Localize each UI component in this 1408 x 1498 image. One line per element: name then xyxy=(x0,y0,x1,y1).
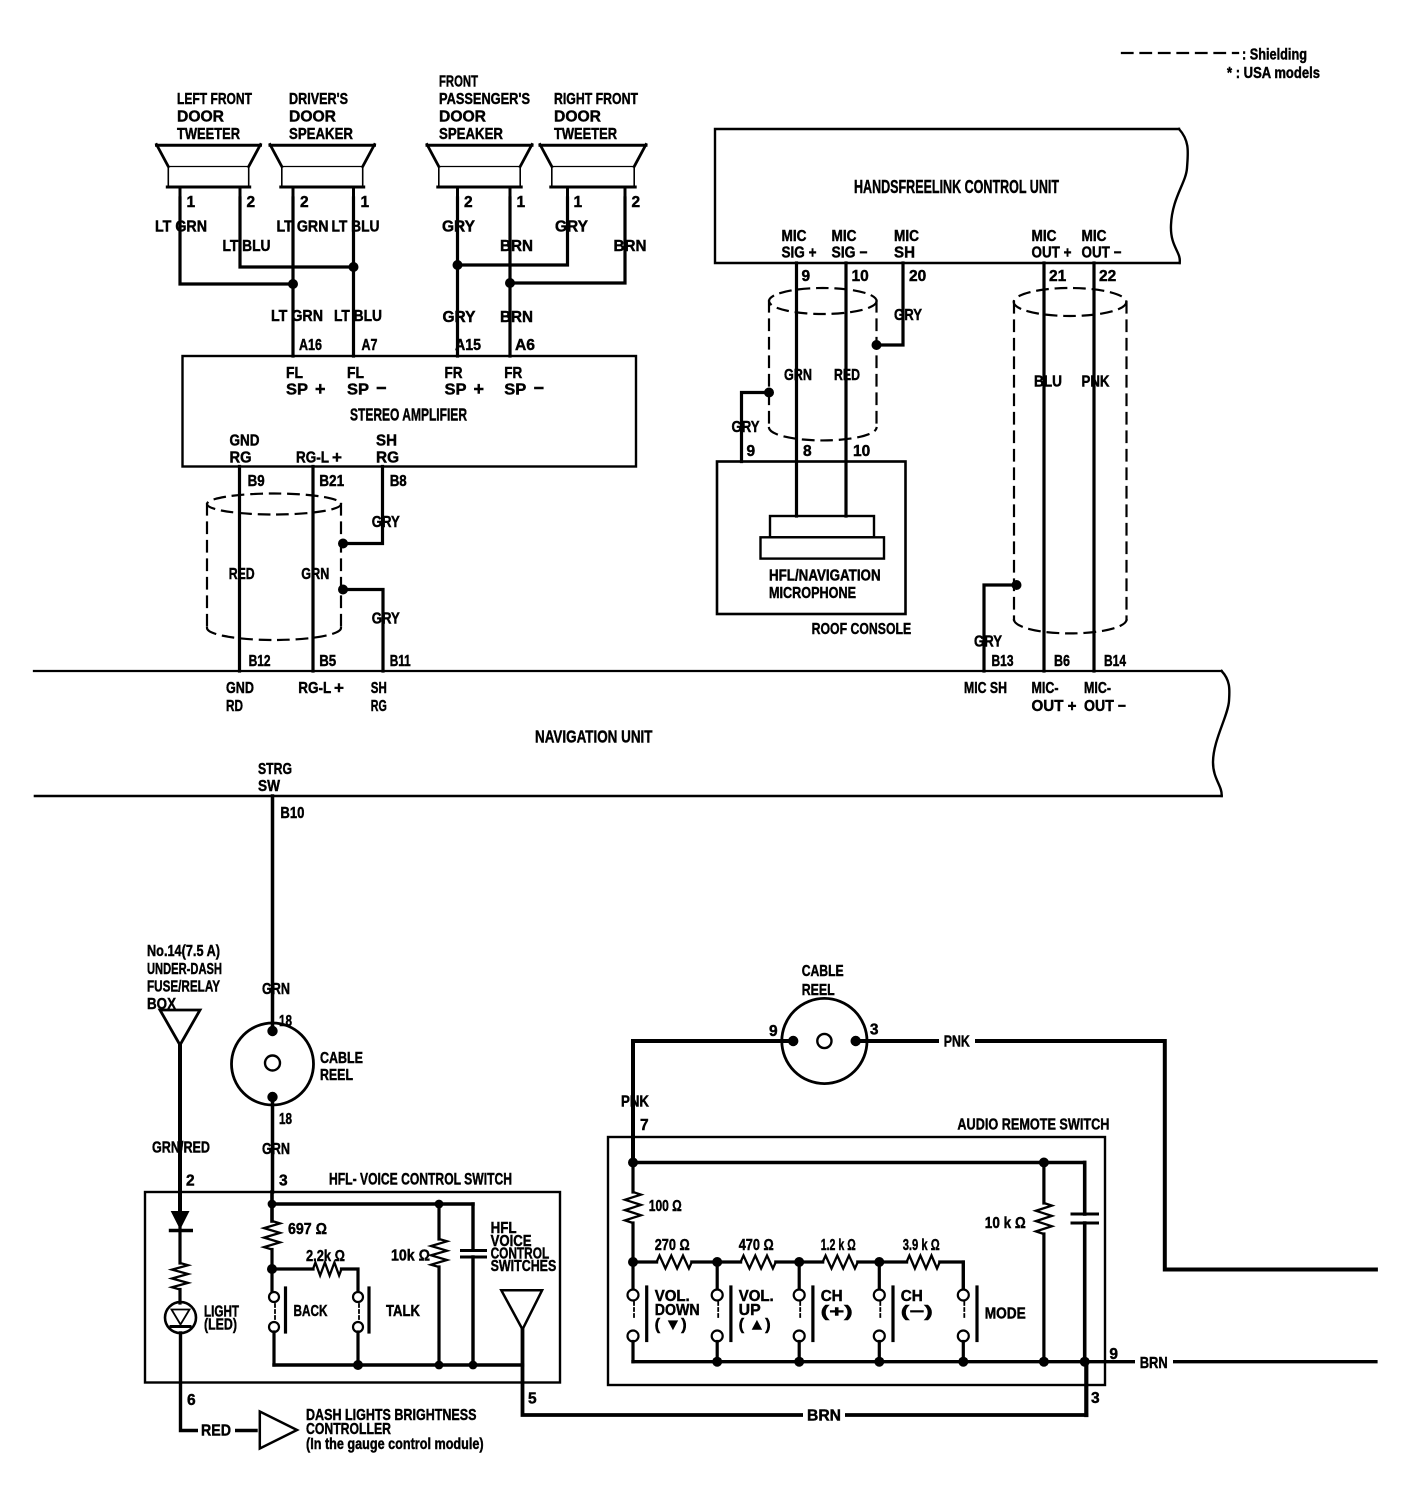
wire GRY shield to nav B13 xyxy=(984,585,1014,671)
svg-text:GRN: GRN xyxy=(262,1141,290,1158)
svg-text:3: 3 xyxy=(870,1022,879,1039)
svg-text:10: 10 xyxy=(852,268,869,285)
svg-text:SIG +: SIG + xyxy=(782,245,817,262)
hfl voice control switches symbol (triangle) xyxy=(501,1290,542,1329)
svg-text:9: 9 xyxy=(747,443,756,460)
amp pin names top xyxy=(286,365,544,399)
svg-text:GND: GND xyxy=(226,680,254,697)
junction dot GRY xyxy=(453,260,463,270)
svg-text:( ▲): ( ▲) xyxy=(739,1317,771,1334)
svg-text:MIC: MIC xyxy=(1032,228,1057,245)
svg-text:FR: FR xyxy=(504,365,522,382)
LED label xyxy=(204,1304,239,1334)
ch plus switch xyxy=(794,1262,813,1362)
svg-text:BRN: BRN xyxy=(500,238,533,255)
svg-text:8: 8 xyxy=(803,443,812,460)
svg-text:RED: RED xyxy=(201,1423,231,1440)
svg-text:GRN/RED: GRN/RED xyxy=(152,1140,210,1157)
svg-text:GRY: GRY xyxy=(372,611,401,628)
svg-text:10k Ω: 10k Ω xyxy=(391,1248,430,1265)
svg-text:2: 2 xyxy=(186,1173,195,1190)
junction dot gry shield xyxy=(872,340,882,350)
svg-text:CH: CH xyxy=(821,1288,843,1305)
svg-text:SP: SP xyxy=(347,382,369,399)
resistor 10k ohm vcs xyxy=(431,1204,447,1365)
junction dot LT GRN xyxy=(288,279,298,289)
svg-text:SP: SP xyxy=(286,382,308,399)
wire 2.2k to talk switch xyxy=(342,1269,359,1292)
svg-text:No.14(7.5 A): No.14(7.5 A) xyxy=(147,943,220,960)
wire LT GRN from tweeter-L pin1 to junction xyxy=(180,198,290,284)
svg-text:TWEETER: TWEETER xyxy=(554,126,617,143)
svg-text:18: 18 xyxy=(279,1111,292,1128)
svg-text:SPEAKER: SPEAKER xyxy=(439,126,503,143)
svg-text:MIC: MIC xyxy=(1082,228,1107,245)
svg-text:−: − xyxy=(376,378,387,398)
svg-text:RG: RG xyxy=(376,450,399,467)
svg-text:1: 1 xyxy=(361,194,370,211)
vol down switch label xyxy=(655,1288,700,1334)
cable reel 2 label xyxy=(802,963,844,999)
wire GRN B21 to B5 xyxy=(311,467,314,672)
wire pin3 audio remote switch xyxy=(1084,1362,1088,1415)
speaker symbol: front passenger's door speaker pin stubs xyxy=(458,187,511,200)
svg-text:2: 2 xyxy=(300,194,309,211)
svg-text:GRY: GRY xyxy=(894,307,923,324)
junction dot shield top xyxy=(338,539,348,549)
svg-text:B11: B11 xyxy=(390,653,411,670)
speaker symbol: driver's door speaker pin stubs xyxy=(293,187,354,200)
svg-text:5: 5 xyxy=(528,1391,537,1408)
resistor 100 ohm xyxy=(625,1163,641,1263)
svg-text:GRY: GRY xyxy=(443,309,477,326)
wire color labels lower xyxy=(271,308,533,326)
label RED xyxy=(198,1422,235,1438)
junction dot gry mic-out shield xyxy=(1012,580,1022,590)
legend: shielding dashed-line symbol xyxy=(1122,52,1238,54)
svg-text:22: 22 xyxy=(1099,268,1116,285)
mode switch label xyxy=(985,1306,1026,1323)
resistor 697 ohm xyxy=(264,1221,280,1269)
svg-text:( ▼): ( ▼) xyxy=(655,1317,687,1334)
wire BLU hfl pin21 to nav B6 xyxy=(1042,263,1045,671)
junction dot chain 2 xyxy=(794,1257,804,1267)
svg-text:GRY: GRY xyxy=(974,634,1003,651)
svg-text:HANDSFREELINK CONTROL UNIT: HANDSFREELINK CONTROL UNIT xyxy=(854,176,1059,197)
wire junction to back switch xyxy=(270,1269,273,1292)
junction dot shield bottom xyxy=(338,585,348,595)
svg-text:HFL/NAVIGATION: HFL/NAVIGATION xyxy=(769,568,881,585)
svg-text:GRY: GRY xyxy=(732,419,761,436)
svg-text:BLU: BLU xyxy=(1034,374,1062,391)
svg-text:1: 1 xyxy=(517,194,526,211)
svg-text:2: 2 xyxy=(464,194,473,211)
svg-text:MIC: MIC xyxy=(782,228,807,245)
svg-text:B9: B9 xyxy=(248,473,265,490)
wire GRN/RED fuse to hfl-vcs pin2 xyxy=(178,1045,182,1192)
resistor 3.9k ohm xyxy=(907,1256,940,1269)
svg-text:B8: B8 xyxy=(390,473,407,490)
back switch xyxy=(269,1288,286,1332)
label right front door tweeter xyxy=(554,91,638,143)
navigation unit bottom edge xyxy=(35,795,1222,798)
vol up switch xyxy=(712,1262,731,1362)
resistor 1.2k ohm xyxy=(823,1256,858,1269)
hfl pin names xyxy=(782,228,1122,262)
svg-text:LT BLU: LT BLU xyxy=(223,238,271,255)
shield cylinder amp-nav (dashed) xyxy=(207,494,341,640)
svg-text:2: 2 xyxy=(632,194,641,211)
nav pin names left xyxy=(226,679,387,716)
handsfreelink control unit box xyxy=(715,129,1188,263)
svg-text:* : USA models: * : USA models xyxy=(1227,65,1320,82)
svg-text:REEL: REEL xyxy=(320,1067,353,1084)
svg-text:(LED): (LED) xyxy=(204,1317,237,1334)
svg-text:GRY: GRY xyxy=(442,219,476,236)
svg-text:BRN: BRN xyxy=(614,238,647,255)
svg-text:B21: B21 xyxy=(319,473,344,490)
svg-text:1.2 k Ω: 1.2 k Ω xyxy=(821,1237,856,1254)
svg-text:A6: A6 xyxy=(515,337,535,354)
svg-text:LT BLU: LT BLU xyxy=(334,308,382,325)
svg-text:7: 7 xyxy=(640,1117,649,1134)
svg-text:REEL: REEL xyxy=(802,982,835,999)
svg-text:270 Ω: 270 Ω xyxy=(655,1237,690,1254)
wire GRY hfl pin20 to shield xyxy=(880,263,903,345)
svg-text:100 Ω: 100 Ω xyxy=(649,1198,682,1215)
talk switch xyxy=(353,1288,369,1332)
svg-text:OUT +: OUT + xyxy=(1032,245,1072,262)
svg-text:9: 9 xyxy=(769,1023,778,1040)
wire PNK reel2 right long run xyxy=(856,1041,1376,1270)
svg-text:RED: RED xyxy=(229,566,255,583)
nav pin name STRG SW xyxy=(258,761,292,795)
ch plus switch label xyxy=(821,1288,853,1321)
wire color labels upper xyxy=(155,219,647,256)
speaker symbol: right front door tweeter pin stubs xyxy=(568,187,626,200)
svg-text:RD: RD xyxy=(226,698,243,715)
svg-text:+: + xyxy=(315,379,326,399)
wire LT GRN driver pin2 to amp A16 xyxy=(291,198,294,356)
svg-text:BRN: BRN xyxy=(807,1408,841,1425)
svg-text:DOOR: DOOR xyxy=(289,109,336,126)
resistor 2.2k ohm xyxy=(313,1263,342,1276)
vol down switch xyxy=(628,1262,647,1362)
svg-text:SH: SH xyxy=(894,245,915,262)
svg-text:B12: B12 xyxy=(249,653,271,670)
hfl-vcs top rail xyxy=(268,1192,473,1221)
svg-text:(−): (−) xyxy=(901,1304,933,1321)
stereo amplifier box xyxy=(183,356,637,467)
resistor 470 ohm xyxy=(741,1256,776,1269)
cable reel 1 label xyxy=(320,1050,363,1084)
svg-text:MODE: MODE xyxy=(985,1306,1026,1323)
svg-text:MIC: MIC xyxy=(894,228,919,245)
wire GRY B8 to shield xyxy=(346,467,383,544)
cable reel 1 xyxy=(232,1023,314,1105)
svg-text:: Shielding: : Shielding xyxy=(1242,47,1307,64)
ch minus switch label xyxy=(901,1288,933,1321)
wire LED to pin6 and dash controller xyxy=(181,1333,257,1431)
label left front door tweeter xyxy=(177,91,252,143)
svg-text:B10: B10 xyxy=(280,805,304,822)
svg-text:3.9 k Ω: 3.9 k Ω xyxy=(903,1237,940,1254)
svg-text:OUT −: OUT − xyxy=(1082,245,1122,262)
wire GRN cable reel to hfl-vcs pin3 xyxy=(271,1097,275,1192)
svg-text:(+): (+) xyxy=(821,1304,853,1321)
svg-text:10: 10 xyxy=(853,443,870,460)
svg-text:RG: RG xyxy=(371,698,387,715)
svg-text:6: 6 xyxy=(187,1392,196,1409)
wire GRN hfl pin9 to mic pin8 xyxy=(795,263,798,516)
svg-text:GRY: GRY xyxy=(372,514,401,531)
nav pin names right xyxy=(964,680,1126,715)
svg-text:470 Ω: 470 Ω xyxy=(739,1237,774,1254)
hfl voice control switches label xyxy=(491,1220,557,1275)
capacitor vcs xyxy=(462,1204,486,1365)
svg-text:MIC-: MIC- xyxy=(1032,680,1059,697)
svg-text:FL: FL xyxy=(347,365,364,382)
svg-text:RG: RG xyxy=(230,450,252,467)
svg-text:GRN: GRN xyxy=(262,981,290,998)
svg-text:3: 3 xyxy=(1091,1390,1100,1407)
capacitor audio xyxy=(1072,1163,1098,1362)
junction dot BRN xyxy=(505,278,515,288)
wire RED hfl pin10 to mic pin10 xyxy=(844,263,847,516)
svg-text:UNDER-DASH: UNDER-DASH xyxy=(147,961,222,978)
svg-text:A15: A15 xyxy=(455,337,481,354)
resistor 10k ohm audio xyxy=(1036,1163,1052,1362)
dash lights brightness controller label xyxy=(306,1407,484,1453)
mode switch xyxy=(958,1262,977,1362)
svg-text:FL: FL xyxy=(286,365,303,382)
navigation unit top edge xyxy=(34,670,1222,672)
svg-text:CABLE: CABLE xyxy=(320,1050,363,1067)
svg-text:SP: SP xyxy=(445,382,467,399)
svg-text:GRN: GRN xyxy=(301,566,329,583)
svg-text:RG-L: RG-L xyxy=(298,680,331,697)
svg-text:SPEAKER: SPEAKER xyxy=(289,126,353,143)
resistor (led series) xyxy=(172,1263,188,1290)
svg-text:STEREO AMPLIFIER: STEREO AMPLIFIER xyxy=(350,405,467,425)
label PNK right xyxy=(939,1033,975,1049)
svg-text:+: + xyxy=(332,448,342,467)
wire LT BLU from tweeter-L pin2 to junction xyxy=(240,198,350,267)
hfl voice control switch box xyxy=(145,1192,560,1383)
svg-text:PASSENGER'S: PASSENGER'S xyxy=(439,91,530,108)
svg-text:A7: A7 xyxy=(362,337,378,354)
svg-text:FRONT: FRONT xyxy=(439,74,478,91)
svg-text:SH: SH xyxy=(376,433,397,450)
hfl-vcs bottom rail xyxy=(274,1363,523,1366)
vol up switch label xyxy=(739,1288,774,1334)
svg-text:SW: SW xyxy=(258,778,280,795)
microphone symbol xyxy=(761,516,885,559)
svg-text:SIG −: SIG − xyxy=(832,245,868,262)
svg-text:SP: SP xyxy=(504,382,526,399)
wire LT BLU driver pin1 to amp A7 xyxy=(352,198,355,356)
svg-text:GND: GND xyxy=(230,433,260,450)
resistor chain wire xyxy=(633,1262,963,1292)
audio bottom rail and BRN out xyxy=(633,1360,1376,1363)
audio top rail xyxy=(628,1158,1085,1168)
svg-text:9: 9 xyxy=(1109,1346,1118,1363)
svg-text:LT GRN: LT GRN xyxy=(271,308,323,325)
junction dot gry shield left xyxy=(764,388,774,398)
svg-text:HFL- VOICE CONTROL SWITCH: HFL- VOICE CONTROL SWITCH xyxy=(329,1171,512,1189)
svg-text:3: 3 xyxy=(279,1173,288,1190)
label driver's door speaker xyxy=(289,91,353,143)
svg-text:LEFT FRONT: LEFT FRONT xyxy=(177,91,252,108)
junction dots bottom rail xyxy=(712,1357,1089,1367)
svg-text:−: − xyxy=(534,378,545,398)
svg-text:TALK: TALK xyxy=(386,1303,421,1320)
wire GRY shield to B11 xyxy=(346,590,383,672)
svg-text:TWEETER: TWEETER xyxy=(177,126,240,143)
junction dot 100ohm bottom xyxy=(628,1257,638,1267)
microphone label xyxy=(769,568,881,603)
svg-text:2: 2 xyxy=(247,194,256,211)
speaker symbol: left front door tweeter xyxy=(157,145,261,188)
wire GRY shield to mic pin9 xyxy=(742,393,767,462)
speaker symbol: driver's door speaker xyxy=(270,145,375,188)
svg-text:SH: SH xyxy=(371,680,387,697)
svg-text:MIC-: MIC- xyxy=(1084,680,1111,697)
svg-text:B14: B14 xyxy=(1104,653,1126,670)
navigation unit wavy right edge xyxy=(1213,671,1229,796)
junction dot 10k bottom xyxy=(435,1361,444,1370)
speaker symbol: right front door tweeter xyxy=(540,145,646,188)
wire PNK reel2 left to audio pin7 xyxy=(633,1041,793,1163)
svg-text:FUSE/RELAY: FUSE/RELAY xyxy=(147,979,220,996)
pin labels speakers xyxy=(187,194,641,211)
junction dot talk bottom xyxy=(353,1360,363,1370)
junction dot chain 3 xyxy=(874,1257,884,1267)
svg-text:B5: B5 xyxy=(319,653,336,670)
junction dot back/2.2k xyxy=(267,1264,277,1274)
diode (led driver) xyxy=(171,1192,192,1263)
svg-text:PNK: PNK xyxy=(944,1034,971,1051)
svg-text:MIC: MIC xyxy=(832,228,857,245)
svg-text:DOOR: DOOR xyxy=(177,109,224,126)
svg-text:DOOR: DOOR xyxy=(554,109,601,126)
wire RED B9 to B12 xyxy=(238,467,241,672)
svg-text:LT BLU: LT BLU xyxy=(332,219,380,236)
wire GRY passenger pin2 to amp A15 xyxy=(456,198,459,356)
svg-text:AUDIO REMOTE SWITCH: AUDIO REMOTE SWITCH xyxy=(957,1117,1109,1134)
hfl pin numbers xyxy=(802,268,1117,285)
svg-text:BRN: BRN xyxy=(500,309,533,326)
svg-text:MIC SH: MIC SH xyxy=(964,680,1007,697)
svg-text:SWITCHES: SWITCHES xyxy=(491,1258,557,1275)
wire resistor to LED xyxy=(178,1290,181,1304)
resistor 270 ohm xyxy=(657,1256,692,1269)
wire back switch to bottom rail xyxy=(272,1332,275,1365)
wire BRN from tweeter-R pin2 to junction xyxy=(514,198,625,283)
svg-text:MICROPHONE: MICROPHONE xyxy=(769,585,856,602)
svg-text:A16: A16 xyxy=(299,337,322,354)
wire PNK hfl pin22 to nav B14 xyxy=(1092,263,1095,671)
svg-text:LT GRN: LT GRN xyxy=(155,219,207,236)
junction dot chain 1 xyxy=(712,1257,722,1267)
svg-text:RED: RED xyxy=(834,367,860,384)
svg-text:21: 21 xyxy=(1049,268,1067,285)
speaker symbol: left front door tweeter pin stubs xyxy=(180,187,240,200)
svg-text:1: 1 xyxy=(574,194,583,211)
speaker symbol: front passenger's door speaker xyxy=(427,145,532,188)
label BRN right xyxy=(1135,1354,1173,1370)
svg-text:B13: B13 xyxy=(992,653,1014,670)
svg-text:2.2k Ω: 2.2k Ω xyxy=(306,1248,345,1265)
svg-text:OUT −: OUT − xyxy=(1084,698,1126,715)
wire switches triangle to pin5 and brn line xyxy=(523,1329,1087,1415)
ch minus switch xyxy=(874,1262,893,1362)
svg-text:B6: B6 xyxy=(1054,653,1070,670)
svg-text:DRIVER'S: DRIVER'S xyxy=(289,91,348,108)
svg-text:10 k Ω: 10 k Ω xyxy=(985,1215,1026,1232)
label front passenger's door speaker xyxy=(439,74,530,144)
svg-text:PNK: PNK xyxy=(621,1094,650,1111)
wire talk switch to bottom rail xyxy=(356,1332,359,1365)
svg-text:STRG: STRG xyxy=(258,761,292,778)
svg-text:CABLE: CABLE xyxy=(802,963,844,980)
junction dot LT BLU xyxy=(349,262,359,272)
svg-text:9: 9 xyxy=(802,268,811,285)
label BRN bottom xyxy=(803,1407,845,1423)
junction dot cap bottom xyxy=(469,1361,478,1370)
svg-text:BRN: BRN xyxy=(1140,1355,1168,1372)
amp pin names bottom xyxy=(230,433,400,468)
wire BRN passenger pin1 to amp A6 xyxy=(508,198,511,356)
wire GRN nav B10 to cable reel xyxy=(271,796,275,1029)
fuse symbol triangle xyxy=(160,1010,200,1045)
svg-text:20: 20 xyxy=(909,268,926,285)
amp connector pin labels A16 A7 A15 A6 xyxy=(299,337,535,354)
svg-text:OUT +: OUT + xyxy=(1032,698,1077,715)
dash lights brightness controller symbol xyxy=(260,1412,297,1449)
svg-text:DOOR: DOOR xyxy=(439,109,486,126)
svg-text:BACK: BACK xyxy=(294,1303,329,1320)
svg-text:+: + xyxy=(334,679,344,698)
svg-text:(In the gauge control module): (In the gauge control module) xyxy=(306,1436,484,1453)
audio remote switch box xyxy=(608,1137,1105,1385)
svg-text:LT GRN: LT GRN xyxy=(277,219,329,236)
cable reel 2 xyxy=(782,998,867,1083)
LED symbol xyxy=(165,1302,196,1333)
svg-text:GRY: GRY xyxy=(555,219,589,236)
wire GRY from tweeter-R pin1 to junction xyxy=(461,198,568,265)
svg-text:PNK: PNK xyxy=(1082,374,1111,391)
mic pin numbers xyxy=(747,443,871,460)
svg-text:ROOF CONSOLE: ROOF CONSOLE xyxy=(812,621,912,638)
svg-text:RG-L: RG-L xyxy=(296,450,329,467)
svg-text:RIGHT FRONT: RIGHT FRONT xyxy=(554,91,638,108)
shield cylinder mic-out (dashed) xyxy=(1014,288,1127,633)
svg-text:697 Ω: 697 Ω xyxy=(288,1221,327,1238)
svg-text:1: 1 xyxy=(187,194,196,211)
under-dash fuse/relay box label xyxy=(147,943,222,1013)
roof console box xyxy=(717,462,906,615)
svg-text:NAVIGATION UNIT: NAVIGATION UNIT xyxy=(535,727,653,747)
svg-text:CH: CH xyxy=(901,1288,923,1305)
svg-text:GRN: GRN xyxy=(784,367,812,384)
wire junction to 2.2k resistor xyxy=(272,1267,313,1270)
shield cylinder mic-sig (dashed) xyxy=(769,288,877,440)
svg-text:+: + xyxy=(474,379,485,399)
svg-text:FR: FR xyxy=(445,365,463,382)
